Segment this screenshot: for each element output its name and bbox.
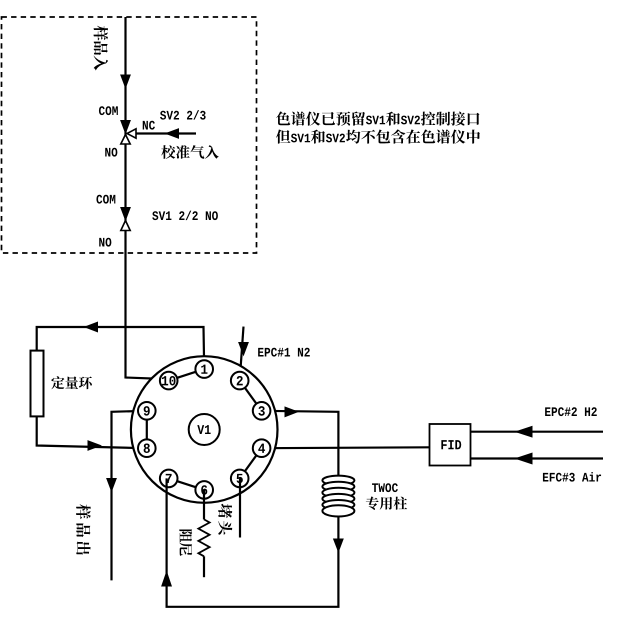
flow arrow from port 3 [285, 407, 298, 417]
label COM (SV1) [96, 195, 115, 204]
flow arrow into port 8 [88, 441, 101, 450]
wire EPC#2 H2 into FID [471, 431, 604, 433]
rotor channel port 1 to port 10 [169, 369, 205, 381]
wire port 5 plug stub [239, 478, 241, 537]
valve SV1 open triangle up [121, 221, 130, 231]
valve SV2 3-way open triangle up [121, 135, 130, 145]
flow arrow column outlet [334, 539, 344, 552]
port 8 [138, 439, 156, 457]
valve SV2 3-way open triangle left [127, 129, 136, 138]
label 专用柱 [366, 496, 407, 509]
label 阻尼 (rotated) [179, 530, 192, 556]
flow arrow into port 7 [162, 572, 172, 586]
label NC [143, 121, 155, 130]
wire calibration gas in [136, 132, 196, 134]
wire EFC#3 Air into FID [471, 457, 604, 459]
port 7 [160, 470, 178, 488]
sample loop 定量环 body [31, 351, 44, 417]
label SV1 2/2 NO [152, 211, 218, 221]
dashed enclosure box for external valves [2, 17, 257, 253]
wire port 4 to FID [262, 446, 430, 449]
wire below damper [203, 556, 205, 577]
flow arrow EPC#1 [239, 343, 248, 356]
port 4 [253, 439, 271, 457]
wire port 3 to column top [262, 411, 339, 476]
label 堵头 (rotated) [218, 504, 232, 535]
flow arrow to loop [85, 322, 98, 332]
rotor channel port 6 to port 7 [169, 478, 205, 490]
label SV2 2/3 [160, 110, 206, 120]
label EPC#2 H2 [545, 407, 597, 416]
wire loop bottom to port 8 [37, 416, 147, 448]
label COM (SV2) [99, 106, 118, 115]
port 9 [138, 402, 156, 420]
note paragraph line 1 [276, 111, 479, 125]
label 定量环 [51, 376, 92, 389]
rotor channel port 8 to port 9 [146, 411, 148, 448]
wire port 9 to sample out [112, 411, 147, 581]
flow arrow sample out [107, 479, 116, 492]
label EFC#3 Air [543, 472, 601, 482]
port 5 [231, 470, 249, 488]
wire port 6 down [203, 490, 205, 520]
label FID [441, 440, 461, 449]
flow arrow Air [516, 453, 532, 464]
rotor channel port 2 to port 3 [240, 381, 262, 411]
port 1 [195, 360, 213, 378]
label V1 [197, 425, 210, 434]
valve V1 body circle [131, 356, 278, 503]
label NO (SV1) [99, 238, 111, 247]
wire EPC#1 N2 into port 2 [240, 327, 244, 381]
wire port1 to sample loop top [37, 327, 205, 369]
flow arrow calibration gas [166, 129, 179, 138]
flow arrow H2 [516, 426, 532, 437]
label EPC#1 N2 [258, 348, 310, 357]
label 样品出 (sample out, rotated) [76, 504, 91, 555]
port 2 [231, 372, 249, 390]
flow arrow sample in [121, 75, 130, 88]
port 3 [253, 402, 271, 420]
FID detector box [430, 424, 471, 466]
column coil TWOC [322, 476, 354, 517]
label TWOC [372, 483, 398, 492]
flow arrow into SV1 [121, 208, 130, 221]
label 校准气入 (calibration gas in) [161, 145, 219, 159]
flow arrow into SV2 [121, 121, 130, 134]
valve center circle V1 [189, 414, 220, 445]
port 10 [160, 372, 178, 390]
resistor 阻尼 damper zigzag [198, 519, 209, 556]
note paragraph line 2 [276, 129, 480, 143]
label NO (SV2) [105, 148, 117, 157]
wire sample in vertical + to port 10 [126, 17, 169, 379]
rotor channel port 4 to port 5 [240, 448, 262, 478]
label 样品入 (sample in, rotated) [94, 26, 109, 71]
wire column to bottom to port 7 [167, 478, 339, 606]
port 6 [195, 481, 213, 499]
